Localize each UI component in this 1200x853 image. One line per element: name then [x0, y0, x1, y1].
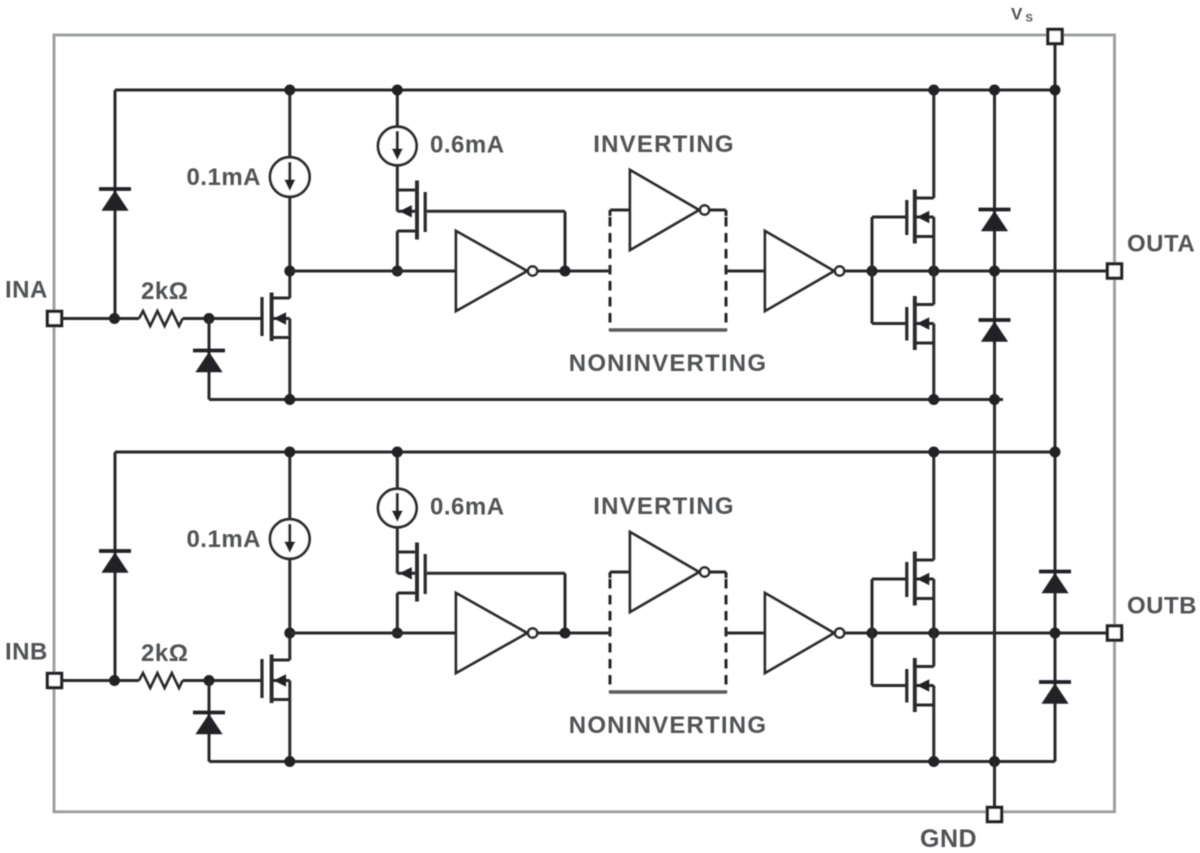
svg-text:OUTB: OUTB — [1127, 593, 1197, 620]
terminal OUTB — [1107, 626, 1121, 640]
wire box out — [726, 632, 765, 635]
svg-text:S: S — [1026, 13, 1033, 25]
dashed option box — [609, 572, 612, 578]
wire input clamp branch — [114, 90, 117, 319]
wire node row — [290, 632, 456, 635]
node 0.6mA rail junction — [392, 85, 403, 96]
node V_S top rail A — [1050, 85, 1061, 96]
transistor output high-side MOSFET — [905, 562, 908, 597]
svg-text:0.1mA: 0.1mA — [186, 526, 261, 553]
terminal GND — [987, 807, 1001, 821]
current source 0.1mA — [288, 90, 291, 158]
svg-text:0.6mA: 0.6mA — [430, 132, 505, 159]
wire top rail V_S channel A — [115, 89, 1055, 92]
node diode column bottom A — [989, 394, 1000, 405]
wire resistor to gate — [183, 317, 261, 320]
node gate junction — [204, 313, 215, 324]
wire clamp diode column A / ground tie — [993, 90, 996, 762]
node buffer1 out — [560, 266, 571, 277]
transistor input MOSFET — [260, 659, 263, 698]
node gate drive — [867, 266, 878, 277]
node 0.6mA rail junction — [392, 447, 403, 458]
node source to rail junction — [284, 394, 295, 405]
svg-text:V: V — [1011, 5, 1023, 24]
node output — [928, 266, 939, 277]
node 0.1mA row junction — [284, 628, 295, 639]
svg-text:INA: INA — [5, 277, 48, 304]
terminal INB — [47, 673, 61, 687]
wire bottom rail channel B — [209, 760, 1055, 763]
node source to rail junction — [284, 756, 295, 767]
wire GND drop — [993, 762, 996, 809]
dashed option box — [609, 210, 612, 216]
wire cascode gate feedback — [427, 210, 565, 213]
wire input row — [61, 317, 139, 320]
wire output gates — [871, 217, 874, 324]
wire cascode gate feedback — [427, 572, 565, 575]
transistor input MOSFET — [260, 297, 263, 336]
node buffer1 out — [560, 628, 571, 639]
diode — [1039, 570, 1071, 574]
wire top rail V_S channel B — [115, 451, 1055, 454]
node 0.1mA rail junction — [284, 447, 295, 458]
svg-text:OUTA: OUTA — [1127, 231, 1195, 258]
current source 0.6mA — [396, 90, 399, 127]
node 0.1mA rail junction — [284, 85, 295, 96]
wire buffer1 out — [537, 270, 610, 273]
svg-text:2kΩ: 2kΩ — [141, 640, 188, 667]
terminal INA — [47, 311, 61, 325]
transistor cascode MOSFET — [396, 527, 399, 573]
node low-side rail junction — [928, 394, 939, 405]
wire output row — [844, 270, 1107, 273]
node high-side rail junction — [928, 85, 939, 96]
node V_S top rail B — [1050, 447, 1061, 458]
diode — [193, 349, 225, 353]
wire buffer1 out — [537, 632, 610, 635]
node gate drive — [867, 628, 878, 639]
wire output gates — [871, 579, 874, 686]
diode — [193, 711, 225, 715]
wire V_S column / clamp diode column B — [1054, 42, 1057, 762]
diode — [99, 187, 131, 191]
diode — [979, 318, 1011, 322]
node ground tie — [989, 756, 1000, 767]
node cascode row junction — [392, 266, 403, 277]
inverter buffer 1 — [456, 231, 527, 311]
svg-text:INVERTING: INVERTING — [593, 131, 734, 158]
svg-text:INB: INB — [5, 639, 48, 666]
transistor output low-side MOSFET — [905, 669, 908, 703]
transistor output low-side MOSFET — [905, 307, 908, 341]
diode — [99, 549, 131, 553]
svg-text:0.6mA: 0.6mA — [430, 494, 505, 521]
node cascode row junction — [392, 628, 403, 639]
svg-text:2kΩ: 2kΩ — [141, 278, 188, 305]
wire input clamp branch — [114, 452, 117, 681]
terminal V_S — [1048, 29, 1062, 43]
wire box out — [726, 270, 765, 273]
node 0.1mA row junction — [284, 266, 295, 277]
node high-side rail junction — [928, 447, 939, 458]
svg-text:NONINVERTING: NONINVERTING — [569, 350, 767, 377]
inverter buffer 2 — [765, 231, 834, 311]
node output — [928, 628, 939, 639]
transistor cascode MOSFET — [396, 165, 399, 211]
wire bottom rail channel A — [209, 398, 1003, 401]
inverter buffer 1 — [456, 593, 527, 673]
resistor 2k&#937; — [139, 673, 183, 688]
wire lower clamp branch — [208, 681, 211, 762]
wire resistor to gate — [183, 679, 261, 682]
transistor output high-side MOSFET — [905, 200, 908, 235]
node diode column OUTA — [989, 266, 1000, 277]
node diode column OUTB — [1050, 628, 1061, 639]
node low-side rail junction — [928, 756, 939, 767]
current source 0.6mA — [396, 452, 399, 489]
terminal OUTA — [1107, 264, 1121, 278]
svg-text:INVERTING: INVERTING — [593, 493, 734, 520]
svg-text:0.1mA: 0.1mA — [186, 164, 261, 191]
resistor 2k&#937; — [139, 311, 183, 326]
node input junction — [109, 313, 120, 324]
wire node row — [290, 270, 456, 273]
wire output row — [844, 632, 1107, 635]
inverter option triangle — [610, 571, 630, 574]
inverter buffer 2 — [765, 593, 834, 673]
diode — [1039, 680, 1071, 684]
wire input row — [61, 679, 139, 682]
diode — [979, 208, 1011, 212]
inverter option triangle — [610, 209, 630, 212]
node diode column top A — [989, 85, 1000, 96]
node input junction — [109, 675, 120, 686]
current source 0.1mA — [288, 452, 291, 520]
svg-text:NONINVERTING: NONINVERTING — [569, 712, 767, 739]
wire lower clamp branch — [208, 319, 211, 400]
svg-text:GND: GND — [920, 825, 977, 853]
node gate junction — [204, 675, 215, 686]
